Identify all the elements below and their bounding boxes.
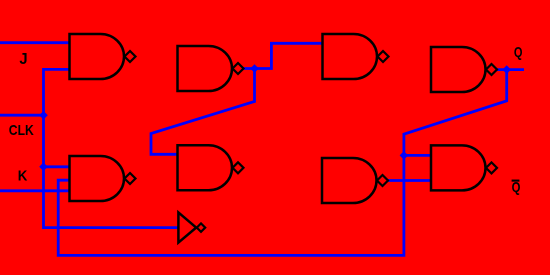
svg-text:J: J xyxy=(19,51,27,68)
wire Q output xyxy=(496,68,525,71)
svg-text:Q: Q xyxy=(514,44,523,61)
junction U3 output node xyxy=(250,64,259,73)
nand U3 (master top) xyxy=(178,46,244,91)
nand U8 (Q-bar output gate) xyxy=(431,145,497,190)
wire CLK branch to U2 top input xyxy=(44,165,70,168)
svg-text:K: K xyxy=(18,167,28,184)
junction Q node xyxy=(502,65,511,74)
svg-text:Q: Q xyxy=(512,179,521,196)
wire CLK input stub xyxy=(0,114,44,117)
wire J input xyxy=(0,41,70,44)
nand U1 (J input gate) xyxy=(70,34,136,79)
junction CLK to U2 xyxy=(39,163,48,172)
nand U5 (bottom middle) xyxy=(178,145,244,190)
wire U6 output to U7 bottom input xyxy=(387,179,431,182)
nand U2 (K input gate, 3-input) xyxy=(70,156,136,201)
svg-text:CLK: CLK xyxy=(9,122,34,139)
label Q-bar xyxy=(512,179,521,196)
nand U7 (Q output gate) xyxy=(431,47,497,92)
wire CLK vertical: U1 lower input, down to inverter input xyxy=(44,69,179,227)
inverter INV1 (clock inverter) xyxy=(178,212,205,242)
junction Q feedback to U7 xyxy=(400,151,409,160)
nand U4 (top middle-right) xyxy=(323,34,389,79)
nand U6 (bottom middle-right) xyxy=(322,158,388,203)
wire U3 output branch diagonal down to U5 input xyxy=(151,69,255,155)
wire K input xyxy=(0,189,70,192)
wire node to U7 top input xyxy=(404,154,431,157)
wire U3 output to U4 input xyxy=(243,43,323,68)
wire Q feedback: U2 middle input, down, bottom run, up right side, diagonal to Q node xyxy=(58,70,507,256)
junction CLK/vertical xyxy=(39,111,48,120)
